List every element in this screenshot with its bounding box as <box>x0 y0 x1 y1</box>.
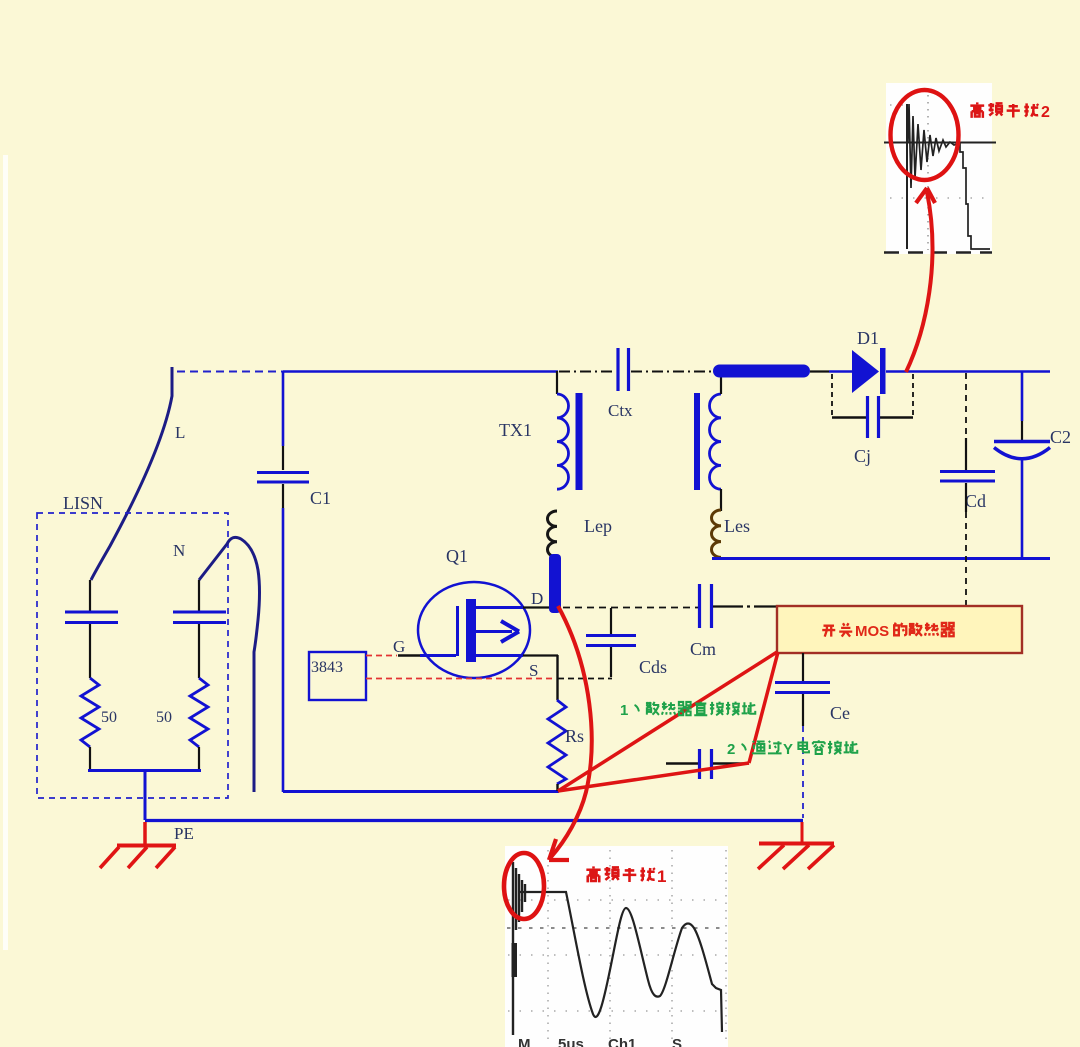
scope1 center axis ticks <box>507 927 727 929</box>
capacitor Y left wire <box>666 762 698 764</box>
svg-text:Cds: Cds <box>639 657 667 677</box>
interference ellipse 1 <box>504 853 544 919</box>
LISN dashed box <box>37 513 228 798</box>
red arrow to scope1 <box>549 606 592 860</box>
wire: secondary top lead <box>720 376 722 394</box>
wire: drain dashed net to Cm <box>563 607 698 609</box>
capacitor C2 (polarized) <box>994 442 1050 459</box>
wire PE bus <box>145 819 803 822</box>
capacitor Cd <box>940 472 995 482</box>
capacitor C2 bottom lead <box>1021 459 1024 559</box>
wire: secondary bottom lead <box>720 489 722 511</box>
heatsink box title (red CJK) <box>822 623 954 637</box>
wire: top bus C1 to transformer <box>283 370 558 373</box>
svg-text:Cd: Cd <box>965 491 986 511</box>
wire: thick secondary top bar <box>713 365 810 378</box>
scope2 ringing waveform <box>908 104 990 249</box>
svg-text:50: 50 <box>101 709 117 726</box>
annotation: method 2 ground via Y cap (green CJK) <box>742 740 857 754</box>
scope1 grid dots <box>548 850 726 1044</box>
annotation: method 1 direct ground (green CJK) <box>635 702 755 716</box>
red arrow to scope2 <box>906 188 935 372</box>
svg-text:1: 1 <box>657 867 666 886</box>
capacitor C2 top lead <box>1021 371 1024 440</box>
red link Y cap to source node <box>558 763 749 791</box>
wire N (neutral conductor curve) <box>199 537 260 792</box>
capacitor Cd top lead <box>965 438 967 470</box>
wire: black dashed source to Cds <box>558 678 612 680</box>
transistor Q1 gate plate <box>456 606 459 656</box>
transformer TX1 secondary winding <box>710 394 722 489</box>
svg-text:L: L <box>175 423 185 442</box>
scope2 rising edge <box>906 104 908 249</box>
capacitor Cds bottom lead <box>610 647 612 677</box>
transistor Q1 source lead <box>476 654 558 657</box>
svg-text:PE: PE <box>174 824 194 843</box>
transistor Q1 body circle <box>418 582 530 678</box>
wire: L resistor bottom lead <box>89 747 91 770</box>
wire: bar to diode <box>810 370 853 372</box>
wire: top-left dashed feed from L to C1 node <box>177 371 283 373</box>
svg-text:Cj: Cj <box>854 446 871 466</box>
svg-text:D1: D1 <box>857 328 879 348</box>
wire: diode to output node <box>886 370 1050 373</box>
svg-text:Lep: Lep <box>584 516 612 536</box>
red link heatsink to source node <box>558 652 777 791</box>
capacitor Cds <box>586 636 636 646</box>
wire: Rs bottom lead <box>556 784 558 791</box>
transformer core bar left <box>576 393 583 490</box>
svg-text:S: S <box>672 1036 682 1047</box>
svg-text:G: G <box>393 637 405 656</box>
scope2 grid dots <box>927 95 929 250</box>
wire: N cap to resistor lead <box>198 624 200 678</box>
capacitor Ctx dash-dot right <box>631 371 713 373</box>
inductor Les (secondary leakage) <box>712 510 722 557</box>
oscilloscope capture 1 (bottom) <box>505 846 728 1047</box>
capacitor LISN-N <box>173 612 226 623</box>
transformer core bar right <box>694 393 700 490</box>
wire: LISN bar to PE stub <box>144 770 147 820</box>
svg-text:2: 2 <box>1041 104 1050 121</box>
wire: primary winding top lead <box>556 371 558 394</box>
capacitor Ce top lead <box>802 653 804 681</box>
diode D1 <box>852 348 886 394</box>
svg-text:Y: Y <box>783 741 793 758</box>
inductor Lep (primary leakage) <box>548 511 558 557</box>
wire: Ce dashed down to PE <box>802 726 804 818</box>
capacitor Cd dashed bottom <box>965 512 967 605</box>
scope2 baseline <box>884 142 996 144</box>
wire: gate feed <box>398 654 456 657</box>
capacitor LISN-L <box>65 612 118 623</box>
ground PE (left, earth symbol) <box>100 822 176 868</box>
svg-text:C2: C2 <box>1050 427 1071 447</box>
svg-text:50: 50 <box>156 709 172 726</box>
wire: N resistor bottom lead <box>198 747 200 770</box>
svg-text:3843: 3843 <box>311 659 343 676</box>
capacitor Cm <box>700 584 712 628</box>
capacitor Y <box>700 749 712 779</box>
red link heatsink to Y cap <box>749 652 778 763</box>
svg-text:N: N <box>173 541 185 560</box>
ground (right, earth symbol) <box>758 822 834 869</box>
capacitor Ctx dash-dot left <box>559 371 616 373</box>
capacitor Y right wire <box>713 762 749 764</box>
annotation text: interference 1 (red CJK) <box>586 866 654 882</box>
transistor Q1 channel bar <box>466 599 476 662</box>
wire: Cm to heatsink <box>713 605 777 607</box>
resistor 50 (N side) <box>190 678 208 747</box>
svg-text:TX1: TX1 <box>499 420 532 440</box>
wire: N capacitor top lead <box>198 580 200 611</box>
capacitor Cd bottom lead <box>965 483 967 512</box>
svg-text:D: D <box>531 589 543 608</box>
transistor Q1 body arrow <box>476 621 519 642</box>
wire: primary ground bus <box>283 790 559 793</box>
left white edge artifact <box>3 155 8 950</box>
svg-text:Ctx: Ctx <box>608 401 633 420</box>
capacitor Ce bottom lead <box>802 694 804 726</box>
svg-text:MOS: MOS <box>855 623 889 640</box>
svg-text:2: 2 <box>727 741 735 758</box>
svg-text:Ce: Ce <box>830 703 850 723</box>
capacitor Cj <box>868 396 879 438</box>
resistor 50 (L side) <box>81 678 99 747</box>
svg-text:S: S <box>529 661 538 680</box>
wire: L capacitor top lead <box>89 580 91 611</box>
svg-text:LISN: LISN <box>63 493 103 513</box>
scope1 bottom readout text <box>518 1036 682 1047</box>
svg-text:5us: 5us <box>558 1036 584 1047</box>
capacitor Cd dashed top <box>965 373 967 438</box>
wire L (line conductor curve) <box>91 367 172 580</box>
svg-text:Ch1: Ch1 <box>608 1036 636 1047</box>
wire: C1 top lead <box>282 446 284 470</box>
wire: LISN bottom bar <box>88 769 201 772</box>
wire: secondary bottom bus <box>712 557 1050 560</box>
capacitor Cj wires <box>832 416 913 418</box>
capacitor Cj dashed left leg <box>831 374 833 416</box>
interference ellipse 2 <box>891 90 959 180</box>
svg-text:Rs: Rs <box>565 726 584 746</box>
capacitor Ctx <box>618 348 629 391</box>
oscilloscope capture 2 (top right) <box>886 83 992 254</box>
wire: red dashed gate link <box>366 655 397 657</box>
wire: L cap to resistor lead <box>89 624 91 678</box>
controller U1 3843 box <box>309 652 366 700</box>
drain node thick bar <box>549 554 561 613</box>
svg-text:Cm: Cm <box>690 639 716 659</box>
svg-text:M: M <box>518 1036 531 1047</box>
scope2 bottom dashes <box>884 251 992 254</box>
svg-text:1: 1 <box>620 702 628 719</box>
wire: left vertical down to primary ground <box>282 508 285 792</box>
wire: left vertical C1 branch upper <box>282 371 285 446</box>
scope1 waveform <box>513 862 722 1035</box>
capacitor Cds top lead <box>610 608 612 634</box>
svg-text:Q1: Q1 <box>446 546 468 566</box>
annotation text: interference 2 (red CJK) <box>970 102 1038 118</box>
capacitor C1 <box>257 473 309 483</box>
wire: S down lead <box>556 655 558 700</box>
capacitor Ce <box>775 683 830 693</box>
svg-text:C1: C1 <box>310 488 331 508</box>
svg-text:Les: Les <box>724 516 750 536</box>
transistor Q1 drain lead <box>476 606 549 609</box>
capacitor Cj dashed right leg <box>912 374 914 416</box>
resistor Rs <box>548 700 566 784</box>
scope1 spike blob <box>512 943 518 977</box>
wire: C1 bottom lead <box>282 484 284 508</box>
heatsink box <box>777 606 1022 653</box>
transformer TX1 primary winding <box>557 394 569 489</box>
wire: red dashed source link <box>366 678 556 680</box>
